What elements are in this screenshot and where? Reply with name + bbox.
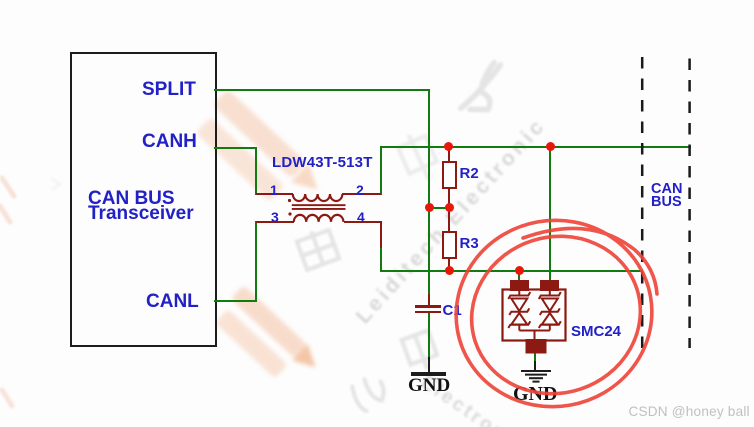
SMC24 earth ground symbol bbox=[518, 369, 554, 385]
char mark above C1 bbox=[396, 130, 442, 184]
wire SPLIT vertical down to C1 bbox=[428, 89, 430, 296]
wire R3 bottom to CANL bbox=[448, 259, 450, 271]
junction dot CANL at SMC24 left bbox=[515, 266, 524, 275]
pin label CANL bbox=[146, 291, 199, 313]
small faint mark left of block bbox=[52, 179, 60, 189]
left TVS element bbox=[508, 290, 530, 331]
CAN BUS dashed line left bbox=[636, 56, 696, 351]
bottom winding bbox=[294, 215, 344, 222]
SMC24 ground vertical bbox=[534, 361, 536, 371]
faint edge smudge lower bbox=[2, 390, 12, 406]
resistor R2 bbox=[442, 161, 457, 189]
center stem bbox=[534, 331, 536, 342]
pin number 1 bbox=[270, 182, 278, 198]
wire mid junction stub bbox=[429, 207, 450, 209]
red annotation circle bbox=[445, 210, 665, 420]
top pin pad right bbox=[541, 281, 558, 290]
C1 ground black vertical bbox=[428, 357, 430, 372]
wire SMC24 left pin vertical bbox=[518, 270, 520, 282]
pin label SPLIT bbox=[142, 79, 196, 101]
wire R2 bottom to mid node bbox=[448, 188, 450, 208]
wire CANH main line bbox=[380, 146, 691, 148]
faint edge smudge upper bbox=[0, 178, 14, 222]
wire pin2 horizontal (dark red) bbox=[342, 193, 381, 195]
wire SMC24 right pin vertical bbox=[549, 147, 551, 282]
wire pin3 horizontal (dark red) bbox=[256, 221, 294, 223]
TVS diode SMC24 bbox=[496, 276, 578, 366]
core line lower bbox=[292, 208, 346, 210]
pin number 2 bbox=[356, 182, 364, 198]
C1 GND text bbox=[408, 375, 450, 397]
capacitor C1 bbox=[415, 305, 441, 308]
junction dot mid right (R2/R3) bbox=[445, 203, 454, 212]
wire pin1 horizontal (dark red) bbox=[256, 193, 293, 195]
label CAN BUS bbox=[651, 183, 682, 211]
CAN BUS dashed line right bbox=[688, 59, 691, 349]
junction dot CANH at SMC24 right bbox=[546, 142, 555, 151]
pin number 3 bbox=[271, 209, 279, 225]
wire CANL main line bbox=[380, 270, 643, 272]
wire C1 top stub dark red bbox=[428, 294, 430, 307]
phase dot top bbox=[288, 199, 291, 202]
choke value label bbox=[272, 154, 373, 171]
wire mid node to R3 top bbox=[448, 207, 450, 232]
CAN bus transceiver block bbox=[70, 52, 217, 347]
watermark logo lower bbox=[211, 284, 323, 393]
wire pin4 vertical upper dark red bbox=[380, 221, 382, 248]
wire CANH stub from block bbox=[214, 147, 257, 149]
phase dot bottom bbox=[288, 212, 291, 215]
label R3 bbox=[460, 235, 479, 252]
pin number 4 bbox=[357, 209, 365, 225]
caption CSDN bbox=[629, 404, 750, 419]
wire CANL stub from block bbox=[214, 300, 257, 302]
label SMC24 bbox=[571, 323, 621, 340]
wire CANH vertical down to pin1 bbox=[255, 147, 257, 195]
block title CAN BUS Transceiver bbox=[88, 191, 194, 222]
top winding bbox=[293, 194, 343, 201]
common-mode choke LDW43T-513T bbox=[250, 185, 390, 230]
wire below SMC24 bottom pin bbox=[534, 352, 536, 362]
wire pin4 horizontal (dark red) bbox=[344, 221, 382, 223]
label R2 bbox=[460, 165, 479, 182]
label C1 bbox=[443, 302, 462, 319]
char mark bottom center-left bbox=[350, 374, 389, 413]
wire CANL vertical up to pin3 bbox=[255, 221, 257, 301]
joining bar bbox=[519, 330, 550, 332]
wire R2 top stub bbox=[448, 147, 450, 162]
char mark top center bbox=[456, 62, 505, 112]
watermark logo upper bbox=[191, 88, 327, 220]
SMC24 GND text bbox=[513, 383, 557, 406]
junction dot CANH at R2 bbox=[444, 142, 453, 151]
SMC24 body box bbox=[503, 290, 566, 341]
wire pin4 vertical lower green part bbox=[380, 247, 382, 271]
core line upper bbox=[292, 204, 346, 206]
junction dot mid left (SPLIT) bbox=[425, 203, 434, 212]
right TVS element bbox=[539, 290, 561, 331]
char mark mid left bbox=[296, 227, 339, 270]
bottom pin pad bbox=[527, 340, 546, 353]
junction dot CANL at R3 bbox=[445, 266, 454, 275]
top pin pad left bbox=[511, 281, 528, 290]
char mark near C1 gnd bbox=[402, 330, 440, 372]
wire C1 lower green bbox=[428, 313, 430, 358]
pin label CANH bbox=[142, 131, 197, 153]
C1 ground bar bbox=[411, 372, 446, 377]
resistor R3 bbox=[442, 231, 457, 259]
wire pin2 vertical up bbox=[380, 146, 382, 195]
wire SPLIT horizontal bbox=[214, 89, 430, 91]
